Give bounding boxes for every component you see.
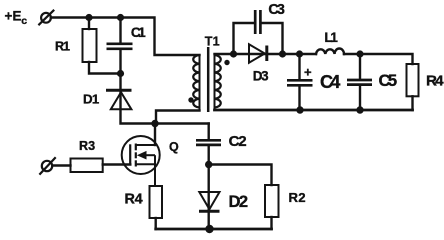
svg-text:T1: T1 [205,34,220,48]
svg-text:+E: +E [5,8,22,23]
svg-text:R1: R1 [55,40,70,54]
svg-text:C1: C1 [131,25,146,40]
svg-text:R4: R4 [426,72,444,89]
svg-text:L1: L1 [324,30,338,45]
svg-text:R3: R3 [79,139,95,153]
svg-text:C3: C3 [268,2,285,18]
svg-text:c: c [21,15,27,27]
svg-text:Q: Q [169,140,179,154]
svg-text:C5: C5 [379,71,398,90]
svg-text:R2: R2 [289,190,306,205]
svg-text:D1: D1 [83,91,100,106]
svg-text:+: + [304,64,312,79]
svg-text:D3: D3 [253,68,269,83]
svg-text:D2: D2 [229,192,249,211]
svg-text:R4: R4 [125,191,143,207]
svg-text:C2: C2 [229,133,247,150]
svg-text:C4: C4 [320,72,340,92]
